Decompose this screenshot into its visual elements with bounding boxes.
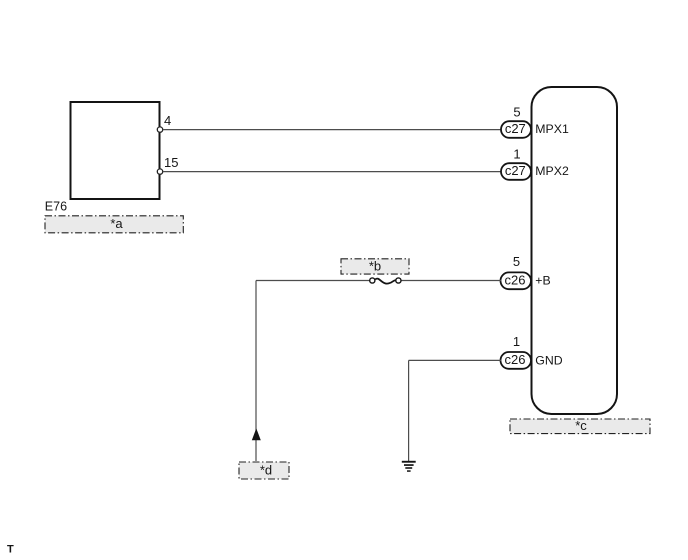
pin 4 terminal [157,127,162,132]
wire GND horizontal (c26-1 to drop) [409,359,502,361]
svg-text:c26: c26 [505,352,526,367]
label box *d [239,462,289,479]
connector c26 pin 5 (+B) [501,254,551,289]
label box *b [341,258,409,274]
ground symbol [402,461,416,472]
svg-text:T: T [7,543,14,555]
ECU body (multiplex network body) [532,87,618,414]
svg-text:E76: E76 [45,199,67,213]
connector c27 pin 1 (MPX2) [501,146,569,179]
svg-text:MPX2: MPX2 [535,164,569,178]
svg-text:15: 15 [164,155,178,170]
svg-text:*d: *d [260,463,272,478]
wire GND vertical drop [408,360,410,461]
wire +B vertical drop [255,281,257,462]
svg-text:c27: c27 [505,163,526,178]
wire +B right segment (fuse to c26-5) [401,280,502,282]
svg-text:*b: *b [369,258,381,273]
wire +B left segment (corner to fuse) [256,280,370,282]
pin 15 terminal [157,169,162,174]
label box *a [45,216,183,233]
svg-text:1: 1 [513,334,520,349]
connector E76 body [71,102,160,199]
label box *c [510,418,650,434]
svg-text:1: 1 [513,146,520,161]
svg-text:5: 5 [513,254,520,269]
svg-text:GND: GND [535,353,562,367]
wire MPX1 (pin 4 to c27-5) [163,129,502,131]
connector c26 pin 1 (GND) [501,334,563,369]
power source arrow [252,428,261,440]
svg-text:c26: c26 [505,272,526,287]
svg-text:4: 4 [164,113,171,128]
svg-text:5: 5 [513,104,520,119]
svg-text:c27: c27 [505,121,526,136]
svg-text:MPX1: MPX1 [535,122,569,136]
wire MPX2 (pin 15 to c27-1) [163,171,502,173]
connector c27 pin 5 (MPX1) [501,104,569,137]
fuse *b element [370,278,401,284]
svg-text:*c: *c [575,418,587,433]
svg-text:+B: +B [535,274,550,288]
svg-text:*a: *a [110,216,123,231]
